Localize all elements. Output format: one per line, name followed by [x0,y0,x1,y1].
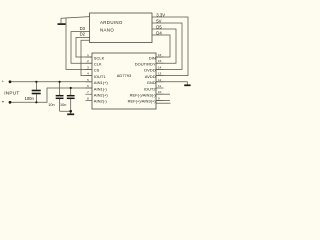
wire D4-DIN [152,35,170,57]
capacitor C1 plates [32,91,41,94]
ground GND1 bar [58,23,66,25]
svg-text:ARDUINO: ARDUINO [100,20,123,25]
svg-text:NANO: NANO [100,27,114,32]
wire GND pin12 [156,82,187,85]
junction dot C3 top [70,87,72,89]
ground GND1 stem [60,18,62,23]
capacitor C3 lead bottom [70,99,72,111]
svg-text:16: 16 [158,53,162,57]
svg-text:AIN2(+): AIN2(+) [94,93,109,98]
svg-text:D2: D2 [80,32,86,37]
svg-text:INPUT: INPUT [4,91,19,96]
junction dot C2 top [59,81,61,83]
junction dot C1 top [35,81,37,83]
svg-text:+: + [2,79,4,83]
arduino U2 box [90,13,153,43]
svg-text:SCLK: SCLK [94,55,105,60]
wire input+ rail [10,81,92,83]
capacitor C2 plates [56,96,64,99]
svg-text:3: 3 [87,65,89,69]
capacitor C2 lead top [59,82,61,95]
svg-text:8: 8 [87,96,89,100]
wire input- rail [10,88,92,102]
svg-text:2: 2 [87,59,89,63]
capacitor C1 lead top [35,82,37,90]
svg-text:CS: CS [94,68,100,73]
svg-text:11: 11 [158,84,161,88]
wire pin9 lower stub [156,102,171,104]
IC U1 pin numbers left [87,53,89,100]
wire pin9 stub [156,99,170,101]
input terminal + [9,80,12,83]
svg-text:AIN2(-): AIN2(-) [94,99,108,104]
wire CS net [66,18,92,70]
IC U1 pin numbers right [158,53,162,100]
capacitor C1 lead bottom [35,94,37,102]
svg-text:REF(-)/AIN3(-): REF(-)/AIN3(-) [130,93,157,98]
IC U1 pin labels left [94,55,109,103]
capacitor C3 lead top [70,88,72,95]
wire 3.3V-AVDD [152,17,188,76]
svg-text:1: 1 [87,53,89,57]
svg-text:AIN1(-): AIN1(-) [94,86,108,91]
IC U1 legs [86,57,164,100]
input terminal - [9,101,12,104]
svg-text:6: 6 [87,84,89,88]
svg-text:CLK: CLK [94,62,102,67]
wire cap-gnd rail [60,111,71,114]
svg-text:13: 13 [158,72,162,76]
IC U1 pin labels right [128,55,157,103]
wire pin10 stub [156,93,170,95]
svg-text:DOUT/RDY: DOUT/RDY [135,62,156,67]
svg-text:15: 15 [158,59,162,63]
svg-text:14: 14 [158,65,162,69]
svg-text:GND: GND [147,80,156,85]
wire D3-CLK [71,32,92,64]
svg-text:D3: D3 [80,26,86,31]
svg-text:AVDD: AVDD [145,74,156,79]
wire D5-DOUT [152,29,176,63]
ground GND2 bar [184,84,190,86]
svg-text:IOUT1: IOUT1 [94,74,107,79]
IC U1 AD7793 box [92,53,156,109]
svg-text:4: 4 [87,72,89,76]
wire D2-SCLK [76,38,92,58]
capacitor C2 lead bottom [59,99,61,111]
svg-text:10: 10 [158,90,162,94]
svg-text:IOUT2: IOUT2 [144,86,157,91]
svg-text:10n: 10n [48,103,54,107]
svg-text:7: 7 [87,90,89,94]
capacitor C3 plates [67,96,75,99]
svg-text:AD7793: AD7793 [117,73,132,78]
svg-text:REF(+)/AIN3(+): REF(+)/AIN3(+) [128,99,157,104]
junction dot C1 bottom [35,101,37,103]
svg-text:12: 12 [158,78,162,82]
svg-text:10n: 10n [60,103,66,107]
svg-text:9: 9 [158,96,160,100]
svg-text:100n: 100n [25,96,35,101]
wire gnd-arduino diagonal [61,17,90,19]
junction dot gnd3 [69,110,72,113]
wire 5V-DVDD [152,23,182,69]
svg-text:DIN: DIN [149,55,156,60]
wire pin-IOUT1 [81,40,92,75]
svg-text:AIN1(+): AIN1(+) [94,80,109,85]
svg-text:5: 5 [87,78,89,82]
ground GND3 bar [67,113,74,115]
svg-text:DVDD: DVDD [144,68,155,73]
